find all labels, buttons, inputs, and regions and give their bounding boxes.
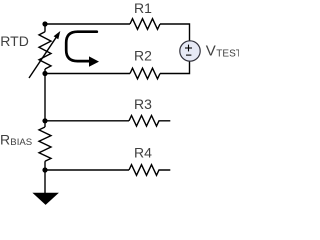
svg-text:R: R (0, 132, 10, 148)
svg-text:TEST: TEST (216, 49, 239, 60)
svg-text:V: V (206, 43, 216, 60)
svg-text:R1: R1 (134, 0, 152, 16)
svg-text:RTD: RTD (0, 33, 29, 49)
svg-text:R4: R4 (134, 145, 152, 161)
svg-text:R2: R2 (134, 48, 152, 64)
svg-text:R3: R3 (134, 96, 152, 112)
svg-text:BIAS: BIAS (10, 137, 32, 148)
